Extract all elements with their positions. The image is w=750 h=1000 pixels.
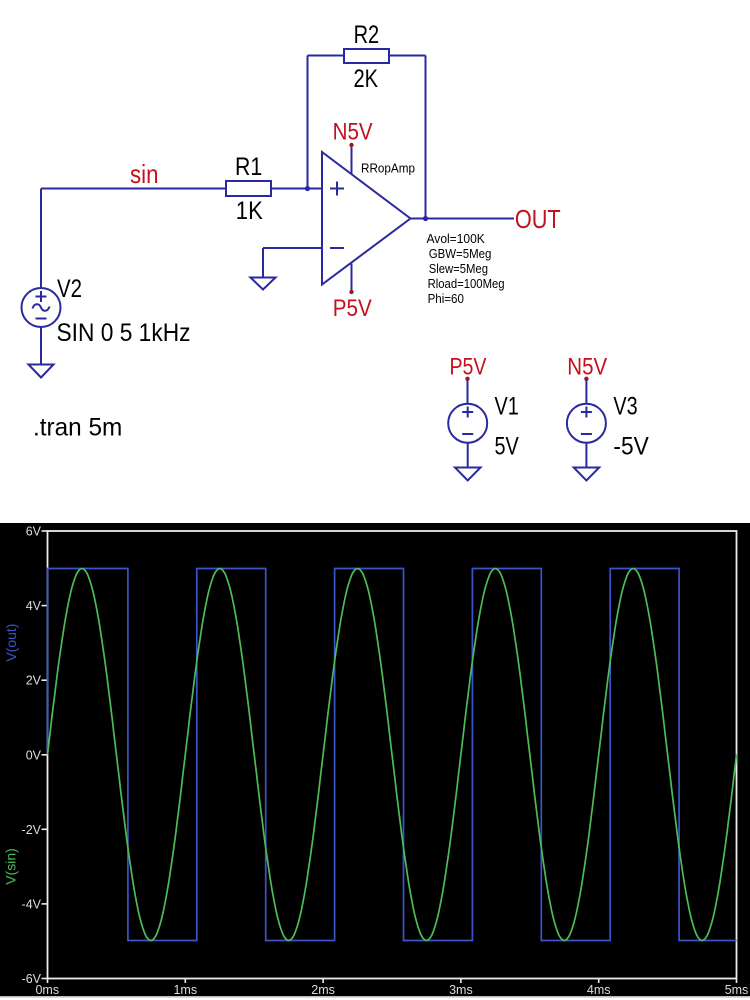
svg-text:sin: sin (130, 159, 159, 189)
port label OUT (515, 206, 561, 234)
svg-text:RRopAmp: RRopAmp (361, 161, 415, 176)
label RRopAmp (361, 161, 415, 176)
y-axis ticks (42, 531, 48, 979)
wire R2 right stub (389, 55, 426, 57)
axis label V(out) (3, 624, 19, 662)
window bottom edge (0, 996, 750, 998)
svg-text:1ms: 1ms (173, 983, 197, 997)
svg-text:V1: V1 (495, 393, 519, 421)
svg-text:Avol=100K: Avol=100K (427, 232, 486, 246)
wire sin net horizontal (41, 188, 322, 190)
wire feedback vertical left (307, 56, 309, 189)
svg-text:R2: R2 (354, 21, 380, 49)
trace V(out) square wave (48, 569, 737, 941)
svg-text:2K: 2K (354, 65, 379, 93)
svg-text:0ms: 0ms (35, 983, 59, 997)
wire V2 top vertical (40, 189, 42, 289)
svg-text:1K: 1K (236, 197, 263, 225)
net label sin (130, 159, 159, 189)
label R2 (354, 21, 380, 49)
svg-text:V3: V3 (613, 393, 637, 421)
port label P5V (333, 295, 372, 322)
value SIN 0 5 1kHz (57, 319, 191, 347)
wire feedback vertical right (425, 56, 427, 219)
svg-text:N5V: N5V (333, 119, 373, 146)
wire R2 left stub (308, 55, 345, 57)
svg-text:0V: 0V (26, 748, 42, 762)
svg-text:5V: 5V (495, 433, 520, 461)
svg-text:OUT: OUT (515, 206, 561, 234)
y-axis labels (22, 525, 42, 987)
svg-text:-4V: -4V (22, 897, 42, 911)
value 2K (354, 65, 379, 93)
voltage source V3 (567, 404, 606, 443)
label V1 (495, 393, 519, 421)
wire V3 bottom (585, 443, 587, 468)
ground V3 (574, 468, 600, 481)
pin end dot V1 (465, 377, 469, 381)
wire V2 bottom (40, 327, 42, 365)
trace V(sin) sine wave (48, 569, 737, 941)
axis label V(sin) (3, 848, 19, 885)
node junction output (423, 216, 428, 221)
ground inverting input (251, 278, 276, 290)
svg-text:Slew=5Meg: Slew=5Meg (429, 262, 488, 276)
wire V1 bottom (467, 443, 469, 468)
pin end dot top (349, 143, 353, 147)
svg-text:P5V: P5V (450, 354, 487, 381)
pin end dot V3 (584, 377, 588, 381)
svg-text:4ms: 4ms (587, 983, 611, 997)
svg-text:.tran 5m: .tran 5m (33, 414, 122, 442)
svg-text:-2V: -2V (22, 823, 42, 837)
label V2 (57, 275, 82, 303)
svg-text:3ms: 3ms (449, 983, 473, 997)
pin V- bottom (351, 264, 353, 293)
wire inverting input (263, 247, 322, 249)
wire V1 top (467, 379, 469, 404)
spice directive .tran 5m (33, 414, 122, 442)
svg-text:V(out): V(out) (3, 624, 19, 662)
svg-text:6V: 6V (26, 525, 42, 539)
plot frame (48, 531, 737, 979)
svg-text:Phi=60: Phi=60 (428, 292, 464, 306)
wire output (411, 218, 515, 220)
ground V1 (455, 468, 481, 481)
svg-text:N5V: N5V (567, 354, 607, 381)
resistor R1 (226, 181, 271, 196)
svg-text:V2: V2 (57, 275, 82, 303)
label V3 (613, 393, 637, 421)
value 5V (495, 433, 520, 461)
svg-text:R1: R1 (235, 153, 262, 181)
svg-text:V(sin): V(sin) (3, 848, 19, 885)
pin end dot bottom (349, 290, 353, 294)
svg-text:SIN 0 5 1kHz: SIN 0 5 1kHz (57, 319, 191, 347)
svg-text:2ms: 2ms (311, 983, 335, 997)
svg-text:GBW=5Meg: GBW=5Meg (429, 247, 492, 261)
op-amp parameter text Avol (427, 232, 505, 306)
node junction feedback (305, 186, 310, 191)
svg-text:5ms: 5ms (725, 983, 749, 997)
svg-text:-5V: -5V (613, 433, 649, 461)
label R1 (235, 153, 262, 181)
wire V3 top (585, 379, 587, 404)
port label P5V at V1 (450, 354, 487, 381)
x-axis labels (35, 983, 748, 997)
svg-text:2V: 2V (26, 674, 42, 688)
port label N5V (333, 119, 373, 146)
op-amp U1 RRopAmp (322, 152, 411, 285)
value 1K (236, 197, 263, 225)
voltage source V2 (22, 288, 61, 327)
resistor R2 (344, 49, 389, 63)
x-axis ticks (48, 979, 737, 984)
pin V+ top (351, 145, 353, 174)
value -5V (613, 433, 649, 461)
voltage source V1 (448, 404, 487, 443)
svg-text:4V: 4V (26, 599, 42, 613)
ground V2 (29, 365, 54, 378)
wire inverting input drop (262, 248, 264, 278)
waveform plot background (0, 523, 750, 996)
svg-text:P5V: P5V (333, 295, 372, 322)
svg-text:Rload=100Meg: Rload=100Meg (428, 277, 505, 291)
port label N5V at V3 (567, 354, 607, 381)
